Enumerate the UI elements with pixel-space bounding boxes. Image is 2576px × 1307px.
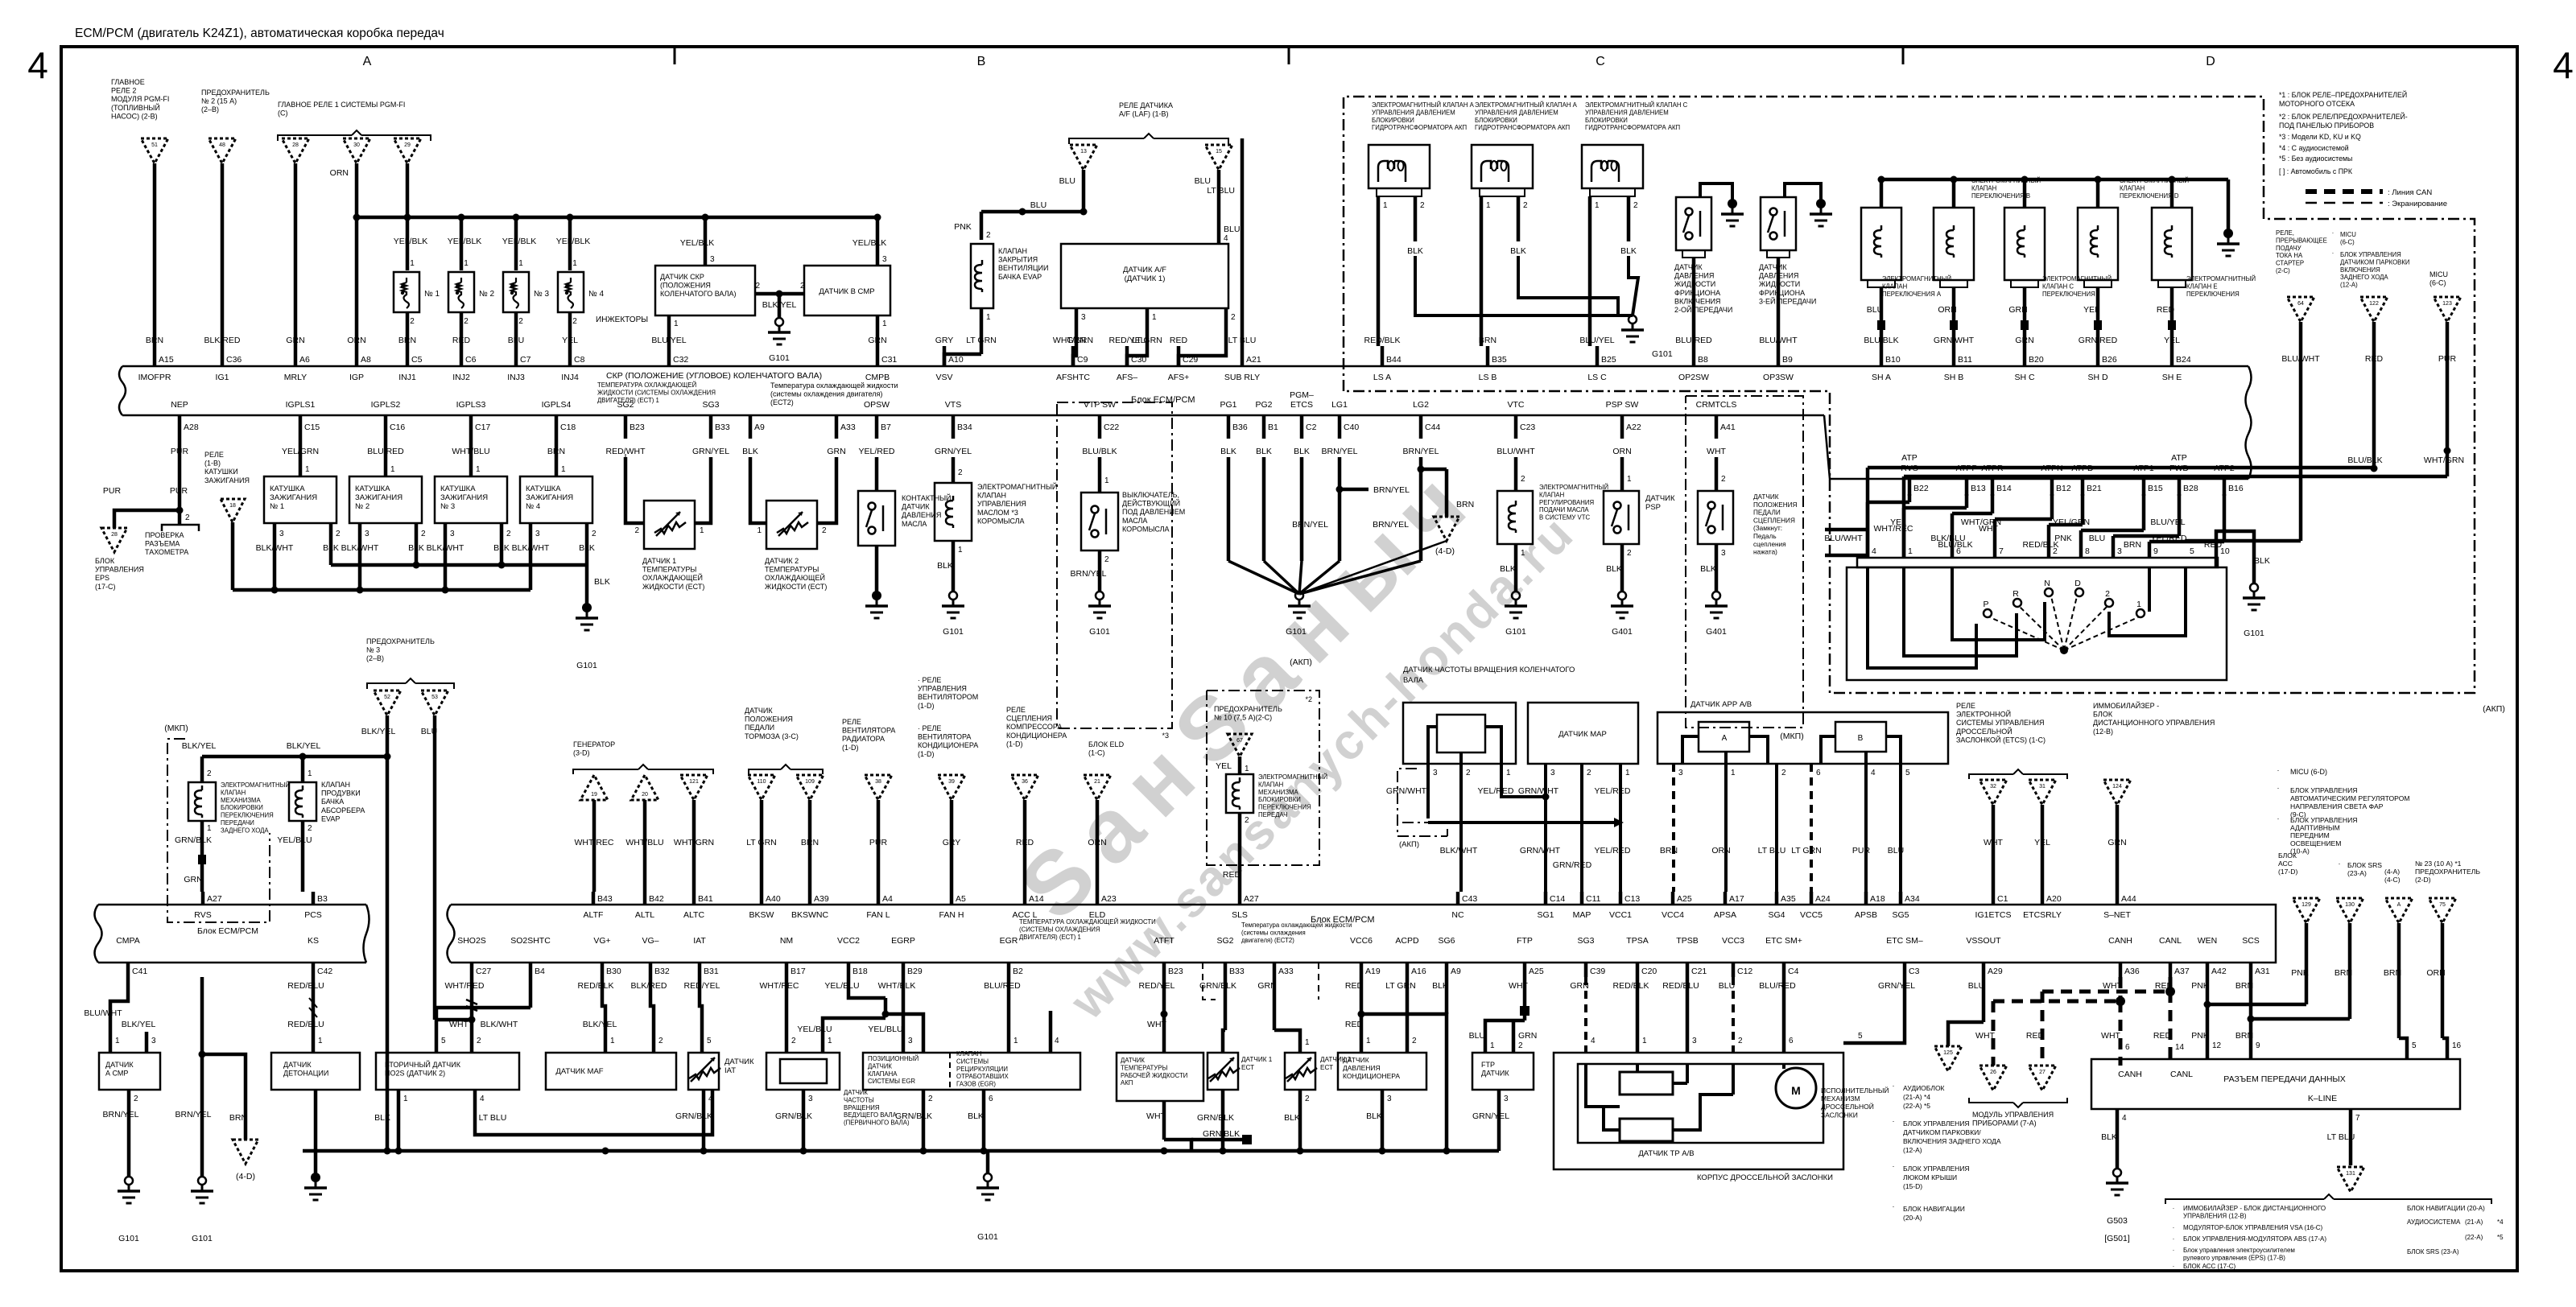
svg-text:БЛОКИРОВКИ: БЛОКИРОВКИ [1258,796,1301,803]
svg-text:ЗАЖИГАНИЯ: ЗАЖИГАНИЯ [526,493,573,502]
svg-text:124: 124 [2112,784,2122,790]
ground G101 (VTC solenoid) [1512,592,1520,600]
svg-text:CANH: CANH [2108,936,2132,946]
svg-text:MICU: MICU [2429,270,2448,278]
svg-text:сцепления: сцепления [1753,541,1786,548]
FTP ground [1497,1090,1501,1151]
bar2 top pin A17 (APSA) stub [1724,892,1728,905]
svg-text:GRN: GRN [1570,981,1588,991]
svg-text:YEL/BLU: YEL/BLU [277,835,312,845]
legend shielding sample [2306,202,2383,204]
bar1 top pin B24 (SH E) wire [2170,346,2174,367]
svg-text:(1-D): (1-D) [1006,740,1023,748]
ignition coil No3 [469,439,473,476]
svg-text:·: · [1893,1162,1895,1170]
svg-text:GRN: GRN [1518,1031,1537,1041]
svg-text:1: 1 [318,1037,323,1045]
bar2 bottom pin A9 (SG6) stub [1445,963,1449,977]
svg-text:BLK/YEL: BLK/YEL [583,1020,617,1029]
FTP sensor wires [1523,977,1527,1006]
svg-text:1: 1 [1627,475,1632,484]
svg-text:RED/BLU: RED/BLU [287,1020,324,1029]
svg-text:УПРАВЛЕНИЯ: УПРАВЛЕНИЯ [95,566,144,574]
bar2 top pin C14 (SG1) stub [1544,892,1548,905]
svg-text:GRN/BLK: GRN/BLK [895,1111,932,1121]
data link connector box [2091,1059,2460,1109]
svg-text:ПОДАЧУ: ПОДАЧУ [2276,245,2301,252]
svg-text:YEL/BLK: YEL/BLK [448,237,482,246]
svg-text:BLU: BLU [1195,176,1211,186]
svg-text:C12: C12 [1737,967,1752,976]
svg-text:КЛАПАН: КЛАПАН [221,789,246,796]
coil ground drop [585,565,589,604]
connector triangle A (4-A/4-C) [2385,898,2413,923]
svg-text:SG2: SG2 [1216,936,1233,946]
svg-text:C39: C39 [1590,967,1605,976]
bar1 top pin B35 (LS B) wire [1486,346,1490,367]
svg-text:VTS: VTS [945,400,961,410]
APP sensor box [1657,712,1948,764]
ground G101 (ignition coils) [582,603,592,612]
svg-text:4: 4 [480,1095,485,1103]
brake pedal bracket [749,769,781,774]
svg-text:GRN/BLK: GRN/BLK [1197,1113,1234,1123]
knock sensor box [271,1053,360,1090]
bar2 top pin A20 (ETCSRLY) stub [2041,892,2045,905]
svg-text:ПОД ДАВЛЕНИЕМ: ПОД ДАВЛЕНИЕМ [1122,508,1185,516]
ground (pressure switch x2104) [1728,199,1737,208]
bar2 bottom pin C12 (VCC3) stub [1732,963,1736,977]
svg-text:БЛОКИРОВКИ: БЛОКИРОВКИ [1372,117,1414,124]
APP inner box wires [1682,736,1699,764]
AFSHTC jog [1073,346,1076,367]
svg-text:БЛОК НАВИГАЦИИ: БЛОК НАВИГАЦИИ [1903,1205,1965,1213]
svg-text:1: 1 [403,1095,408,1103]
svg-text:ТЕМПЕРАТУРЫ: ТЕМПЕРАТУРЫ [765,566,819,574]
svg-text:РЕЛЕ: РЕЛЕ [1006,706,1026,714]
svg-text:ДАТЧИК 1: ДАТЧИК 1 [642,557,676,565]
svg-text:СИСТЕМЫ: СИСТЕМЫ [956,1058,989,1065]
svg-text:BKSW: BKSW [749,910,774,920]
svg-text:ATP: ATP [1901,453,1918,463]
svg-text:BLU: BLU [1968,981,1984,991]
svg-text:B36: B36 [1232,423,1248,432]
shift solenoid A [1878,176,1885,183]
svg-text:A41: A41 [1720,423,1736,432]
svg-text:GRN/WHT: GRN/WHT [1386,786,1427,796]
svg-text:№ 2: № 2 [479,290,495,299]
connector triangle 51 (main relay 2) [141,138,168,163]
injector No1 [394,272,419,312]
svg-text:36: 36 [1022,779,1028,785]
svg-text:ОХЛАЖДАЮЩЕЙ: ОХЛАЖДАЮЩЕЙ [765,573,825,582]
svg-text:ТЕМПЕРАТУРА ОХЛАЖДАЮЩЕЙ ЖИДКОС: ТЕМПЕРАТУРА ОХЛАЖДАЮЩЕЙ ЖИДКОСТИ [1019,918,1156,926]
svg-text:ORN: ORN [1088,838,1106,847]
svg-text:BRN/YEL: BRN/YEL [1071,569,1107,579]
svg-text:ПЕРЕКЛЮЧЕНИЯ: ПЕРЕКЛЮЧЕНИЯ [1258,804,1311,811]
bar1 bottom pin B1 (PG2) wire [1262,415,1266,439]
svg-text:№ 3: № 3 [440,502,455,511]
svg-text:(12-В): (12-В) [2093,728,2113,736]
ATP wire mesh [1908,494,1912,502]
connector triangle 13 [1070,145,1097,170]
svg-text:(ЕСТ2): (ЕСТ2) [770,398,794,406]
wire BLU jumper [981,210,1084,214]
svg-text:WHT: WHT [1979,524,1998,534]
svg-text:3: 3 [535,530,540,538]
svg-text:A39: A39 [814,894,829,904]
svg-text:BLK/WHT: BLK/WHT [341,543,379,553]
CKP-CMP interconnect wire BLK/YEL [755,292,804,296]
svg-text:МОДУЛЯ PGM-FI: МОДУЛЯ PGM-FI [111,95,169,103]
connector triangle 20 [631,775,658,800]
svg-text:WHT: WHT [1509,981,1528,991]
svg-text:B28: B28 [2183,484,2198,493]
svg-text:3: 3 [1433,769,1438,777]
svg-text:БЛОК ELD: БЛОК ELD [1088,740,1125,748]
svg-text:*2 : БЛОК РЕЛЕ/ПРЕДОХРАНИТЕЛЕЙ: *2 : БЛОК РЕЛЕ/ПРЕДОХРАНИТЕЛЕЙ- [2279,112,2408,121]
svg-text:ДАТЧИК: ДАТЧИК [283,1061,312,1069]
svg-text:YEL/BLU: YEL/BLU [824,981,859,991]
svg-text:G101: G101 [769,353,790,363]
svg-text:ДАТЧИК ЧАСТОТЫ ВРАЩЕНИЯ КОЛЕНЧ: ДАТЧИК ЧАСТОТЫ ВРАЩЕНИЯ КОЛЕНЧАТОГО [1403,666,1575,674]
svg-text:2: 2 [755,282,760,291]
svg-text:B26: B26 [2102,355,2117,365]
svg-text:YEL/RED: YEL/RED [1478,786,1514,796]
svg-text:(22-А) *5: (22-А) *5 [1903,1102,1930,1110]
svg-text:ВЕНТИЛЯТОРА: ВЕНТИЛЯТОРА [842,727,895,735]
ECT sensor 1 [625,454,626,503]
svg-text:CMPB: CMPB [865,373,890,382]
svg-text:УПРАВЛЕНИЯ ДАВЛЕНИЕМ: УПРАВЛЕНИЯ ДАВЛЕНИЕМ [1372,109,1455,116]
bar1 ATP pin B14 (ATPR) wire [1991,479,1995,496]
svg-text:ПЕРЕКЛЮЧЕНИЯ: ПЕРЕКЛЮЧЕНИЯ [2186,291,2240,298]
svg-text:39: 39 [948,779,955,785]
svg-text:20: 20 [642,792,648,798]
svg-text:БЛОКИРОВКИ: БЛОКИРОВКИ [1475,117,1517,124]
svg-text:KS: KS [308,936,319,946]
A/F sensor box [1061,244,1228,308]
svg-text:WEN: WEN [2198,936,2218,946]
svg-text:RED/YEL: RED/YEL [684,981,720,991]
svg-text:CMPA: CMPA [116,936,140,946]
svg-text:RED: RED [2157,305,2175,315]
svg-text:B33: B33 [715,423,730,432]
bar1 top pin B20 (SH C) wire [2023,346,2027,367]
svg-text:MICU (6-D): MICU (6-D) [2290,768,2327,776]
svg-text:LT GRN: LT GRN [966,336,997,345]
connector triangle 27 [2029,1066,2056,1091]
bar1 ATP pin B22 (ATP RVS) wire [1908,479,1912,496]
svg-text:109: 109 [805,779,815,785]
svg-text:ЗАСЛОНКИ: ЗАСЛОНКИ [1821,1111,1858,1119]
svg-text:BRN: BRN [801,838,819,847]
injector No2 [448,272,474,312]
svg-text:(4-D): (4-D) [1435,546,1455,556]
svg-text:IG1ETCS: IG1ETCS [1975,910,2012,920]
svg-text:VCC6: VCC6 [1350,936,1373,946]
svg-text:ORN: ORN [330,168,349,178]
ignition coil ground bus BLK/WHT [233,588,530,592]
svg-text:B13: B13 [1971,484,1986,493]
svg-text:BLU: BLU [1867,305,1883,315]
svg-text:2: 2 [185,513,190,522]
svg-text:YEL/BLK: YEL/BLK [556,237,591,246]
svg-text:B3: B3 [317,894,328,904]
svg-text:ГИДРОТРАНСФОРМАТОРА АКП: ГИДРОТРАНСФОРМАТОРА АКП [1475,124,1570,131]
svg-text:(1-С): (1-С) [1088,749,1105,757]
bar1 bottom pin B34 (VTS) wire [952,415,956,439]
svg-text:2: 2 [464,317,469,326]
svg-text:ПРЕДОХРАНИТЕЛЬ: ПРЕДОХРАНИТЕЛЬ [2415,868,2480,876]
fuse 3 bracket [367,683,406,689]
clutch pressure switch at x2104 [1676,197,1711,250]
EPS control block branch [178,439,182,525]
connector triangle 110 [748,775,775,800]
svg-text:B41: B41 [698,894,713,904]
svg-text:ЭЛЕКТРОМАГНИТНЫЙ: ЭЛЕКТРОМАГНИТНЫЙ [977,482,1057,491]
svg-text:B23: B23 [1168,967,1183,976]
svg-text:IG1: IG1 [216,373,229,382]
connector triangle 122 [2360,297,2388,322]
svg-text:ETC SM–: ETC SM– [1886,936,1923,946]
svg-text:ЧАСТОТЫ: ЧАСТОТЫ [844,1096,874,1103]
svg-text:ГАЗОВ (EGR): ГАЗОВ (EGR) [956,1081,996,1088]
svg-text:PUR: PUR [170,486,188,496]
svg-text:B42: B42 [649,894,664,904]
svg-text:1: 1 [674,320,679,328]
svg-text:SH A: SH A [1872,373,1891,382]
ground G101 (PG/LG fan) [1295,592,1303,600]
svg-text:·: · [2173,1224,2175,1231]
clutch pedal position switch [1715,457,1719,491]
svg-text:BRN: BRN [2235,1031,2253,1041]
bar1 ATP pin B15 (ATP1) wire [2142,479,2146,496]
svg-text:1: 1 [464,259,469,268]
svg-text:АВТОМАТИЧЕСКИМ РЕГУЛЯТОРОМ: АВТОМАТИЧЕСКИМ РЕГУЛЯТОРОМ [2290,794,2410,802]
svg-text:YEL/BLK: YEL/BLK [502,237,537,246]
svg-text:ДАТЧИК MAF: ДАТЧИК MAF [555,1067,603,1076]
svg-text:SG4: SG4 [1768,910,1785,920]
long crossing wire triangle 123 [1904,475,2447,479]
svg-text:ДАТЧИК: ДАТЧИК [1759,263,1787,271]
shift lock solenoid (fuse10) [1226,774,1253,813]
K-LINE legend bracket [2165,1199,2324,1204]
svg-text:КАТУШКИ: КАТУШКИ [204,468,238,476]
svg-text:C9: C9 [1077,355,1088,365]
bar1 top pin A15 (IMOFPR) wire [153,346,157,367]
svg-text:·: · [2173,1235,2175,1243]
svg-text:G101: G101 [1505,627,1526,637]
svg-text:ЭЛЕКТРОННОЙ: ЭЛЕКТРОННОЙ [1956,710,2011,719]
svg-text:LT GRN: LT GRN [746,838,777,847]
wire YEL/BLK bus [357,216,877,220]
svg-text:GRN/WHT: GRN/WHT [1520,846,1561,856]
svg-text:ВЕНТИЛЯЦИИ: ВЕНТИЛЯЦИИ [998,264,1048,272]
svg-text:(21-А): (21-А) [2465,1218,2483,1226]
connector triangle 48 (fuse 2) [208,138,236,163]
svg-text:RED: RED [2365,354,2384,364]
svg-text:53: 53 [431,695,438,700]
svg-text:8: 8 [2085,546,2090,556]
injector supply drops [404,214,411,221]
svg-text:3: 3 [1678,769,1683,777]
svg-text:YEL: YEL [1216,761,1232,771]
svg-text:КЛАПАН: КЛАПАН [1882,282,1907,290]
svg-text:МАСЛА: МАСЛА [1122,517,1147,525]
svg-text:BLK: BLK [1510,246,1526,256]
svg-text:М: М [1791,1084,1801,1097]
svg-text:ДВИГАТЕЛЯ) (ЕСТ) 1: ДВИГАТЕЛЯ) (ЕСТ) 1 [1019,934,1081,941]
ETC SM- wire [1903,977,1907,1020]
bar1 bottom pin A22 (PSP SW) wire [1620,415,1624,439]
svg-text:1: 1 [700,526,704,535]
svg-text:ПОД ПАНЕЛЬЮ ПРИБОРОВ: ПОД ПАНЕЛЬЮ ПРИБОРОВ [2279,122,2374,130]
svg-text:1: 1 [115,1037,120,1045]
svg-text:(ПОЛОЖЕНИЯ: (ПОЛОЖЕНИЯ [660,282,711,290]
svg-text:PNK: PNK [2191,1031,2209,1041]
svg-text:1: 1 [1521,549,1525,558]
svg-text:30: 30 [353,142,360,148]
svg-text:A18: A18 [1870,894,1885,904]
svg-text:(2-D): (2-D) [2415,876,2431,884]
svg-text:RED/BLK: RED/BLK [1364,336,1401,345]
svg-text:ЭЛЕКТРОМАГНИТНЫЙ: ЭЛЕКТРОМАГНИТНЫЙ [1258,773,1327,781]
svg-text:(3-D): (3-D) [573,749,590,757]
NM input shaft speed sensor box [766,1053,840,1090]
K-LINE wire LT BLU [2349,1109,2353,1165]
gear position switch connector bar [1857,558,2218,567]
connector triangle 52 [374,691,401,715]
svg-text:GRN: GRN [1257,981,1276,991]
svg-text:ЖИДКОСТИ (ЕСТ): ЖИДКОСТИ (ЕСТ) [642,583,704,591]
svg-text:A33: A33 [840,423,856,432]
svg-text:ДАТЧИК СКР: ДАТЧИК СКР [660,273,704,281]
svg-text:2: 2 [592,530,597,538]
svg-text:LT BLU: LT BLU [1207,186,1235,196]
svg-text:ЕСТ: ЕСТ [1320,1064,1333,1071]
svg-text:КЛАПАН Е: КЛАПАН Е [2186,282,2218,290]
svg-text:BLK/WHT: BLK/WHT [512,543,550,553]
svg-text:4: 4 [2553,44,2574,86]
svg-text:TPSB: TPSB [1676,936,1698,946]
watermark SanSanych [1001,443,1496,938]
svg-text:2: 2 [2105,589,2110,599]
svg-text:A16: A16 [1411,967,1426,976]
svg-text:4: 4 [1224,234,1228,243]
svg-text:[G501]: [G501] [2104,1234,2130,1243]
AKP dash box (crank sensor) [1397,769,1447,836]
bar2 top pin C11 (MAP) stub [1580,892,1584,905]
svg-text:ВЕНТИЛЯТОРА: ВЕНТИЛЯТОРА [918,733,971,741]
svg-text:ETCSRLY: ETCSRLY [2023,910,2062,920]
svg-text:D: D [2206,55,2215,68]
svg-text:LT GRN: LT GRN [1132,336,1162,345]
svg-text:VCC4: VCC4 [1662,910,1684,920]
svg-text:№ 3: № 3 [366,646,380,654]
legend CAN line sample [2306,189,2383,194]
svg-text:BLU/BLK: BLU/BLK [2347,456,2382,465]
svg-text:ТОКА НА: ТОКА НА [2276,252,2303,259]
svg-text:BLU: BLU [1719,981,1735,991]
svg-text:ГЕНЕРАТОР: ГЕНЕРАТОР [573,740,615,748]
svg-text:БЛОК: БЛОК [95,557,115,565]
bar1 bottom pin C22 (VTP SW) wire [1098,415,1102,439]
svg-text:БЛОК SRS (23-А): БЛОК SRS (23-А) [2407,1248,2459,1255]
svg-text:A44: A44 [2121,894,2136,904]
svg-text:WHT/BLU: WHT/BLU [625,838,663,847]
svg-text:BLU/YEL: BLU/YEL [1579,336,1614,345]
svg-text:ГИДРОТРАНСФОРМАТОРА АКП: ГИДРОТРАНСФОРМАТОРА АКП [1372,124,1467,131]
svg-text:C5: C5 [411,355,423,365]
svg-text:BLK/WHT: BLK/WHT [256,543,294,553]
ECM/PCM block (bottom bar) right section [451,905,2276,963]
connector triangle 18 (coil relay) [221,499,245,522]
svg-text:ДАТЧИКОМ ПАРКОВКИ/: ДАТЧИКОМ ПАРКОВКИ/ [1903,1128,1981,1136]
svg-text:N: N [2044,579,2050,588]
svg-text:ПРЕДОХРАНИТЕЛЬ: ПРЕДОХРАНИТЕЛЬ [1214,705,1282,713]
BLK/YEL distribution bus [202,755,387,759]
svg-text:B10: B10 [1885,355,1901,365]
svg-text:ЗАДНЕГО ХОДА: ЗАДНЕГО ХОДА [221,827,269,834]
ground bus GRN/BLK [303,1149,1499,1153]
VTP SW dash-dot box [1057,402,1172,728]
svg-text:(ДАТЧИК 1): (ДАТЧИК 1) [1125,274,1166,283]
svg-text:PSP SW: PSP SW [1606,400,1639,410]
svg-text:1: 1 [610,1037,615,1045]
svg-text:2: 2 [822,526,827,535]
svg-text:СЦЕПЛЕНИЯ: СЦЕПЛЕНИЯ [1006,715,1052,723]
svg-text:RED/YEL: RED/YEL [1139,981,1175,991]
bar1 bottom pin C17 (IGPLS3) wire [469,415,473,439]
svg-text:2: 2 [1104,555,1109,564]
svg-text:A25: A25 [1529,967,1544,976]
svg-text:1: 1 [1305,1038,1310,1047]
svg-text:2: 2 [308,824,312,833]
svg-text:CANL: CANL [2170,1070,2193,1079]
svg-text:GRN/BLK: GRN/BLK [675,1111,712,1121]
svg-text:IMOFPR: IMOFPR [138,373,171,382]
svg-text:ПРИБОРАМИ (7-А): ПРИБОРАМИ (7-А) [1972,1119,2037,1128]
bar2 bottom pin A36 (CANH) stub [2119,963,2123,977]
connector triangle 36 [1011,775,1038,800]
ground (OPSW) [872,591,881,600]
svg-text:2: 2 [1305,1095,1310,1103]
CMPA wire [110,977,128,1053]
svg-text:BLK: BLK [374,1113,390,1123]
svg-text:BLK: BLK [1606,564,1622,574]
svg-text:BLK/YEL: BLK/YEL [182,741,217,751]
svg-text:БЛОК НАВИГАЦИИ (20-А): БЛОК НАВИГАЦИИ (20-А) [2407,1205,2485,1212]
svg-text:Блок управления электроусилите: Блок управления электроусилителем [2183,1247,2295,1254]
A/F relay bracket [1069,138,1144,144]
svg-text:SG3: SG3 [702,400,719,410]
svg-text:3: 3 [1692,1037,1697,1045]
svg-text:ВТОРИЧНЫЙ ДАТЧИК: ВТОРИЧНЫЙ ДАТЧИК [385,1060,461,1069]
svg-text:ЛЮКОМ КРЫШИ: ЛЮКОМ КРЫШИ [1903,1173,1957,1181]
svg-text:2: 2 [1231,313,1236,322]
svg-text:УПРАВЛЕНИЯ ДАВЛЕНИЕМ: УПРАВЛЕНИЯ ДАВЛЕНИЕМ [1585,109,1669,116]
svg-text:IGPLS4: IGPLS4 [542,400,572,410]
svg-text:2: 2 [477,1037,481,1045]
svg-text:C21: C21 [1691,967,1707,976]
svg-text:GRN/BLK: GRN/BLK [775,1111,812,1121]
svg-text:WHT/REC: WHT/REC [575,838,614,847]
bar1 bottom pin C23 (VTC) wire [1514,415,1518,439]
svg-text:C16: C16 [390,423,405,432]
svg-text:B35: B35 [1492,355,1507,365]
EVAP purge valve [301,757,305,782]
